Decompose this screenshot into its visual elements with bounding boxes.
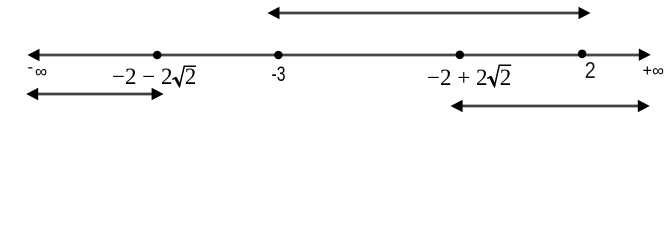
bottom-left interval arrow (-inf to -2-2sqrt2), double headed (26, 88, 163, 100)
number line axis (37, 54, 641, 57)
svg-text:−2 + 2: −2 + 2 (427, 65, 487, 90)
label -2-2sqrt(2) (112, 64, 196, 89)
label -2+2sqrt(2) (427, 65, 511, 90)
point at 2 (578, 50, 587, 59)
svg-text:2: 2 (585, 57, 596, 83)
bottom-right interval arrow (-2+2sqrt2 to +inf), double headed (451, 100, 650, 112)
svg-text:−2 − 2: −2 − 2 (112, 64, 172, 89)
point at -3 (274, 51, 283, 60)
svg-text:+∞: +∞ (643, 62, 665, 80)
point at -2-2*sqrt(2) (153, 51, 162, 60)
svg-text:2: 2 (185, 64, 197, 89)
point at -2+2*sqrt(2) (456, 51, 465, 60)
svg-text:2: 2 (500, 65, 512, 90)
axis left arrowhead (-infinity direction) (28, 49, 40, 61)
axis right arrowhead (+infinity direction) (639, 49, 651, 61)
svg-text:∞: ∞ (35, 62, 47, 81)
top interval arrow (-3 to 2), double headed (268, 7, 591, 19)
svg-text:-: - (28, 58, 34, 77)
svg-text:-3: -3 (272, 63, 286, 86)
